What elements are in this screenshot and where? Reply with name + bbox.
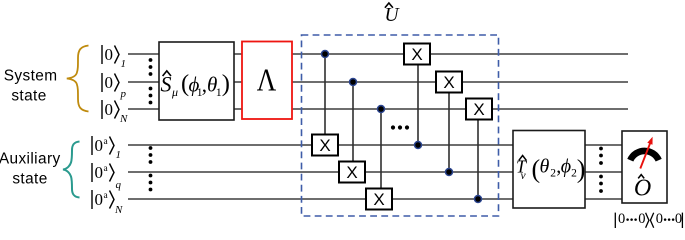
- svg-text:X: X: [411, 45, 422, 64]
- svg-text:θ: θ: [540, 155, 550, 177]
- svg-text:ν: ν: [521, 170, 527, 182]
- svg-text:System: System: [4, 68, 58, 85]
- svg-text:p: p: [120, 88, 127, 100]
- svg-text:1: 1: [116, 149, 122, 161]
- svg-text:q: q: [116, 179, 122, 191]
- svg-text:0: 0: [95, 136, 104, 155]
- svg-text:X: X: [319, 136, 330, 155]
- svg-text:state: state: [11, 87, 46, 104]
- svg-text:Λ: Λ: [257, 61, 277, 97]
- svg-text:): ): [577, 154, 586, 183]
- svg-text:U: U: [384, 5, 400, 26]
- svg-text:O: O: [634, 176, 651, 202]
- svg-text:0: 0: [105, 73, 114, 92]
- svg-text:0: 0: [656, 211, 663, 227]
- svg-text:0: 0: [105, 45, 114, 64]
- svg-text:0: 0: [95, 190, 104, 209]
- svg-text:0: 0: [675, 211, 682, 227]
- svg-text:0: 0: [638, 211, 645, 227]
- svg-text:X: X: [473, 100, 484, 119]
- svg-text:Auxiliary: Auxiliary: [0, 150, 61, 167]
- svg-text:ϕ: ϕ: [561, 155, 571, 177]
- svg-text:μ: μ: [171, 85, 178, 99]
- svg-text:X: X: [443, 73, 454, 92]
- svg-text:1: 1: [121, 58, 127, 70]
- svg-text:state: state: [12, 170, 47, 187]
- svg-text:0: 0: [618, 211, 625, 227]
- svg-text:X: X: [346, 163, 357, 182]
- svg-text:): ): [222, 70, 230, 97]
- svg-text:0: 0: [105, 100, 114, 119]
- svg-text:N: N: [114, 204, 123, 216]
- svg-text:N: N: [119, 113, 128, 125]
- svg-text:X: X: [373, 190, 384, 209]
- svg-text:0: 0: [95, 163, 104, 182]
